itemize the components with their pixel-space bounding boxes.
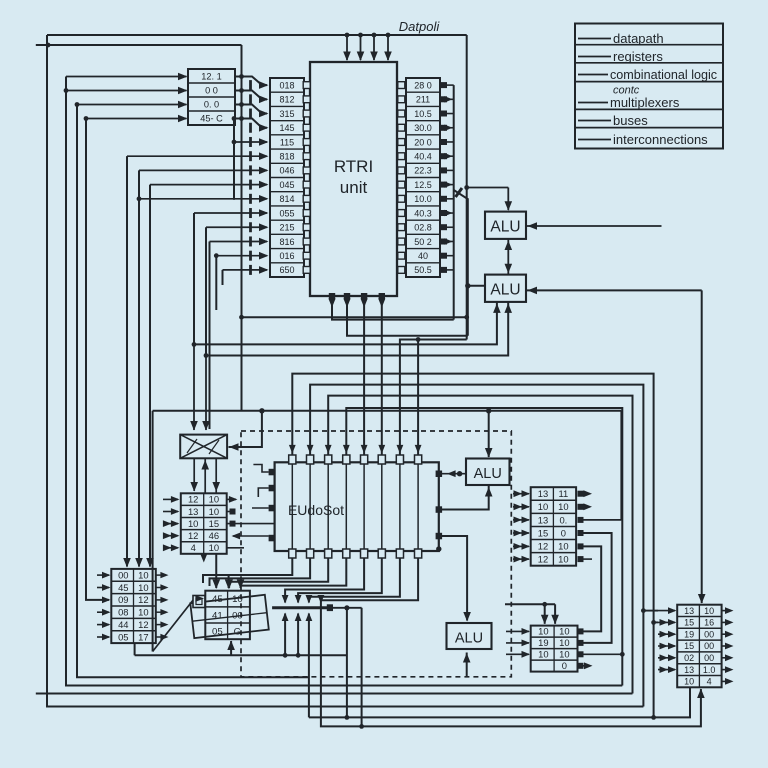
- right frame wire x701.7 down to far right table: [701, 290, 703, 603]
- svg-text:interconnections: interconnections: [613, 132, 708, 147]
- diagonal wire to table E: [153, 597, 196, 651]
- svg-text:10: 10: [138, 569, 148, 580]
- svg-text:0 0: 0 0: [205, 85, 218, 95]
- svg-text:10: 10: [209, 494, 219, 505]
- dropper x346.9 to bottom bus: [346, 608, 348, 718]
- svg-text:10: 10: [558, 554, 568, 565]
- fan wire pin3 to table E top: [229, 558, 328, 588]
- svg-text:13: 13: [188, 506, 198, 517]
- table G right output arrows: [722, 610, 731, 612]
- table D right pins: [578, 628, 584, 634]
- riser x127 register row6 to table F arrow: [126, 156, 128, 566]
- svg-text:0.: 0.: [559, 514, 567, 525]
- arrowheads into EUdoSot top pins: [289, 445, 296, 454]
- left riser x47 to bottom bus y706.5: [47, 35, 643, 707]
- fan wire pin7 to cluster: [309, 558, 400, 603]
- table D row3 wire to right riser: [584, 653, 623, 655]
- table C row4 wire down to table D row2: [584, 533, 612, 643]
- bottom bus y655.3 from table F: [135, 654, 347, 656]
- RTRI output pins to right register file: [398, 82, 405, 89]
- svg-text:10: 10: [684, 677, 694, 687]
- wire top bus y35: [47, 34, 467, 36]
- svg-text:registers: registers: [613, 49, 663, 64]
- execution unit EUdoSot: [275, 462, 439, 551]
- wire into ALU3 bottom from bus y677.2: [466, 653, 468, 678]
- svg-text:28 0: 28 0: [414, 80, 432, 90]
- wire RTRI port3 down to EUdoSot pin5: [363, 296, 365, 455]
- svg-text:018: 018: [279, 80, 294, 90]
- legend key combinational logic: [578, 74, 608, 76]
- table B bottom stub arrow: [203, 554, 205, 560]
- svg-text:ALU: ALU: [490, 219, 520, 236]
- svg-text:multiplexers: multiplexers: [610, 95, 680, 110]
- svg-text:650: 650: [279, 265, 294, 275]
- wire EUdoSot right pin2 to ALU4 bottom: [442, 486, 489, 510]
- bus jog branch to x467.8: [454, 190, 468, 336]
- register table E skewed shadow: [190, 595, 268, 638]
- ALU U3: [485, 275, 526, 302]
- svg-text:datapath: datapath: [613, 31, 664, 46]
- wire into multiplexer right: [229, 411, 262, 447]
- wire table E bottom arrow: [230, 641, 232, 655]
- table B right connections: [227, 498, 236, 500]
- right register output pins: [441, 82, 447, 88]
- svg-text:10: 10: [704, 606, 714, 616]
- svg-text:4: 4: [707, 677, 712, 687]
- svg-text:50 2: 50 2: [414, 237, 432, 247]
- svg-text:12: 12: [138, 619, 148, 630]
- bus y384.6 EUdoSot pin2 to right riser: [310, 385, 643, 707]
- bus width ticks on left register inputs: [249, 80, 252, 90]
- svg-text:10: 10: [232, 594, 243, 605]
- multiplexer to table B links: [193, 458, 195, 491]
- wire input ALU2 from right frame: [526, 289, 702, 291]
- svg-text:12: 12: [188, 494, 198, 505]
- register table B (5 rows): [181, 493, 227, 554]
- riser x466.7 from Datpoli bus: [466, 35, 468, 340]
- wire into left register row5 from table A riser: [233, 119, 235, 200]
- svg-text:02: 02: [684, 653, 694, 663]
- register table E side fragment: [193, 596, 205, 608]
- cluster rising arrow 3 from y717.4: [308, 614, 310, 718]
- bottom bus y693.5 with overhang: [36, 693, 633, 695]
- svg-text:EUdoSot: EUdoSot: [288, 502, 344, 518]
- table D row4 arrow stub: [584, 665, 591, 667]
- legend box: [575, 24, 723, 149]
- svg-text:ALU: ALU: [455, 631, 483, 647]
- EUdoSot left pin jogs: [253, 465, 268, 473]
- svg-text:211: 211: [416, 95, 430, 105]
- svg-text:19: 19: [684, 629, 694, 639]
- riser table A row3 wire: [77, 104, 187, 106]
- svg-text:12: 12: [538, 540, 548, 551]
- svg-text:10: 10: [559, 649, 569, 660]
- ALU U4 inside dashed region: [466, 459, 510, 486]
- EUdoSot right pins: [436, 471, 443, 478]
- svg-text:combinational logic: combinational logic: [610, 68, 717, 82]
- table B left input arrows: [163, 498, 178, 500]
- svg-text:016: 016: [279, 251, 294, 261]
- left register output pins to RTRI: [303, 82, 310, 89]
- EUdoSot left pins: [269, 469, 276, 476]
- svg-text:40: 40: [418, 251, 428, 261]
- svg-text:10: 10: [538, 501, 548, 512]
- register table D (4 rows): [531, 626, 578, 672]
- table F left stub arrows: [97, 574, 109, 576]
- svg-text:0: 0: [562, 660, 567, 671]
- svg-text:12. 1: 12. 1: [201, 71, 221, 81]
- svg-text:816: 816: [279, 237, 294, 247]
- RTRI unit box U1: [310, 62, 397, 296]
- riser table A row1 wire: [66, 76, 187, 78]
- legend key registers: [578, 56, 611, 58]
- register table E (3 rows): [205, 591, 250, 640]
- EUdoSot top pins: [289, 455, 296, 464]
- svg-text:10: 10: [138, 607, 148, 618]
- register table C (6 rows): [531, 487, 576, 566]
- fan wire pin8 through cluster to bottom bus: [321, 558, 701, 726]
- legend key buses: [578, 120, 611, 122]
- svg-text:115: 115: [280, 137, 294, 147]
- svg-text:15: 15: [209, 518, 219, 529]
- wire drop into dashed ALU top: [488, 411, 490, 457]
- left riser x66 to bottom bus y685.5: [66, 77, 622, 686]
- svg-text:50.5: 50.5: [414, 265, 432, 275]
- control bus y410.8 to dashed ALU and table C: [153, 410, 622, 412]
- fan wire pin4 to table E top: [241, 558, 347, 588]
- wire RTRI port1 to right bus: [332, 296, 454, 320]
- wire EUdoSot left pin4 to table B row4: [233, 535, 269, 537]
- svg-text:00: 00: [704, 641, 714, 651]
- svg-text:10: 10: [558, 540, 568, 551]
- bus y395.6 EUdoSot pin3 to right riser: [328, 396, 632, 694]
- legend key interconnections: [578, 139, 611, 141]
- wire table B bottom to table E top: [215, 554, 217, 588]
- svg-text:812: 812: [279, 95, 294, 105]
- svg-text:unit: unit: [340, 178, 368, 197]
- wire to table D top arrows: [505, 603, 555, 605]
- svg-text:45- C: 45- C: [200, 113, 223, 123]
- left register file (14 rows): [270, 78, 304, 277]
- svg-text:10.5: 10.5: [414, 109, 432, 119]
- svg-text:15: 15: [538, 527, 548, 538]
- cluster bus end pin: [327, 604, 333, 611]
- ALU2 bottom port wire to multiplexer left: [194, 302, 497, 345]
- cross link y317.2: [242, 316, 467, 318]
- cluster bus extension to droppers: [332, 607, 361, 609]
- fan wire pin2 hook: [210, 558, 311, 586]
- svg-text:Datpoli: Datpoli: [399, 19, 441, 34]
- svg-text:145: 145: [279, 123, 294, 133]
- svg-text:12: 12: [538, 554, 548, 565]
- svg-text:45: 45: [118, 582, 128, 593]
- table G bottom wire to bus y717.4: [309, 687, 690, 717]
- RTRI top input arrows: [346, 35, 348, 60]
- svg-text:10: 10: [559, 637, 569, 648]
- svg-text:13: 13: [538, 488, 548, 499]
- svg-text:05: 05: [212, 627, 223, 638]
- wire to EUdoSot pin8: [417, 340, 419, 456]
- svg-text:10: 10: [138, 582, 148, 593]
- table F right output arrows: [156, 574, 166, 576]
- svg-text:G: G: [234, 627, 241, 638]
- svg-text:10: 10: [188, 518, 198, 529]
- svg-text:20 0: 20 0: [414, 137, 432, 147]
- wire RTRI port4 down to EUdoSot pin6: [381, 296, 383, 455]
- svg-text:46: 46: [209, 530, 219, 541]
- table C row6 stub: [584, 558, 593, 560]
- svg-text:814: 814: [279, 194, 294, 204]
- svg-text:315: 315: [279, 109, 294, 119]
- dropper x361.6 to bottom bus: [361, 608, 363, 727]
- svg-text:44: 44: [118, 619, 128, 630]
- svg-text:13: 13: [684, 606, 694, 616]
- svg-text:15: 15: [684, 641, 694, 651]
- svg-text:13: 13: [684, 665, 694, 675]
- bus y408 EUdoSot pin4 to right riser: [346, 408, 622, 686]
- svg-text:12: 12: [188, 530, 198, 541]
- wire table F bottom to bottom bus: [134, 643, 136, 655]
- svg-text:40.3: 40.3: [414, 208, 432, 218]
- svg-text:16: 16: [704, 618, 714, 628]
- riser x216.3 register row13: [215, 256, 217, 310]
- node top bus junction: [46, 43, 51, 48]
- bus y373.6 EUdoSot pin1 to right riser: [292, 374, 653, 718]
- svg-text:045: 045: [279, 180, 294, 190]
- table C row5 wire down to table D row1: [584, 546, 602, 631]
- multiplexer M1 crossed box: [180, 435, 227, 459]
- svg-text:05: 05: [118, 631, 128, 642]
- fan wire pin1 hook: [203, 558, 292, 583]
- cluster bus segment: [272, 606, 332, 609]
- svg-text:02.8: 02.8: [414, 223, 432, 233]
- svg-text:45: 45: [212, 594, 223, 605]
- ALU U5 bottom: [447, 623, 492, 649]
- svg-text:00: 00: [118, 569, 128, 580]
- wire register row10 from riser x194: [194, 212, 267, 214]
- fan wire pin6 to cluster: [298, 558, 382, 603]
- riser table A row2 wire: [66, 90, 187, 92]
- EUdoSot bottom pins: [289, 549, 296, 558]
- riser table A row4 wire: [86, 118, 187, 120]
- EUdoSot internal pin columns: [291, 462, 293, 551]
- wire EUdoSot right pin3 to ALU3 top: [442, 536, 467, 621]
- register table G (7 rows): [677, 605, 721, 688]
- svg-text:818: 818: [279, 151, 294, 161]
- svg-text:10: 10: [209, 542, 219, 553]
- left riser x77 to bottom bus y677.2: [77, 105, 309, 678]
- svg-text:15: 15: [684, 618, 694, 628]
- table C rows 1-2 output arrows: [584, 490, 593, 497]
- wire top bus y45 with left overhang: [36, 44, 242, 46]
- svg-text:40.4: 40.4: [414, 151, 432, 161]
- svg-text:046: 046: [279, 166, 294, 176]
- svg-text:11: 11: [559, 488, 569, 499]
- svg-text:215: 215: [279, 223, 294, 233]
- legend key datapath: [578, 38, 611, 40]
- wire to EUdoSot pin7: [400, 340, 467, 456]
- register table F (6 rows): [111, 569, 156, 643]
- svg-text:19: 19: [538, 637, 548, 648]
- right register file (14 rows): [406, 78, 440, 277]
- wire input ALU1 from right: [526, 225, 662, 227]
- riser x150 register row8 to table F arrow: [149, 185, 151, 567]
- riser x206 register row11 to multiplexer: [205, 227, 207, 355]
- svg-text:22.3: 22.3: [414, 166, 432, 176]
- svg-text:10: 10: [558, 501, 568, 512]
- table B row5 stub: [227, 547, 244, 549]
- svg-text:00: 00: [704, 629, 714, 639]
- svg-text:0. 0: 0. 0: [204, 99, 219, 109]
- svg-text:RTRI: RTRI: [334, 157, 373, 176]
- wire table A row4 riser to table F row3: [86, 119, 109, 600]
- ALU2 bottom port wire to multiplexer right: [206, 302, 508, 356]
- riser x241.5 from top bus into dashed region: [241, 45, 243, 411]
- table C left input arrows: [513, 493, 529, 495]
- ALU U2: [485, 212, 526, 239]
- register table A (4 rows): [188, 69, 235, 125]
- svg-text:10: 10: [209, 506, 219, 517]
- fan wire pin5 to cluster: [285, 558, 364, 603]
- riser x139 register row7 to table F arrow: [138, 170, 140, 566]
- riser x209.5 register row12: [209, 241, 211, 429]
- wire EUdoSot right pin1 to ALU4 left: [442, 473, 466, 475]
- bidirectional link ALU1-ALU2: [507, 239, 509, 275]
- svg-text:10: 10: [559, 626, 569, 637]
- svg-text:buses: buses: [613, 113, 648, 128]
- svg-text:055: 055: [279, 208, 294, 218]
- riser x621.4 down to table C row3: [620, 411, 622, 520]
- table E top arrow 2: [228, 575, 230, 588]
- svg-text:10: 10: [538, 626, 548, 637]
- table E left arrow: [195, 595, 204, 602]
- cluster rising arrow 1 from y655.3: [284, 614, 286, 656]
- svg-text:13: 13: [538, 514, 548, 525]
- table G left input arrows: [658, 610, 675, 612]
- svg-text:12.5: 12.5: [414, 180, 432, 190]
- svg-text:12: 12: [138, 594, 148, 605]
- svg-text:10.0: 10.0: [414, 194, 432, 204]
- bus width tick on jog: [456, 188, 463, 197]
- svg-text:1.0: 1.0: [703, 665, 716, 675]
- table C row3 wire to riser x621.4: [584, 519, 622, 521]
- svg-text:30.0: 30.0: [414, 123, 432, 133]
- svg-text:00: 00: [704, 653, 714, 663]
- control bus riser x152.6 down to diagonal: [152, 411, 154, 652]
- wire table B row3 to EUdoSot: [227, 523, 275, 525]
- branch wire into table G row2: [654, 621, 658, 623]
- multiplexer top arrows from ALU2: [193, 344, 195, 430]
- table C right pins: [578, 491, 584, 497]
- svg-text:4: 4: [191, 542, 196, 553]
- wires table A rows to left register rows: [235, 77, 267, 86]
- wire into ALU2 left: [468, 285, 485, 287]
- branch wire into table G row1: [643, 610, 658, 612]
- bus right of right register file x453.7: [453, 85, 455, 319]
- dashed region boundary: [241, 431, 511, 677]
- table D left arrows: [506, 630, 529, 632]
- wire RTRI port2 to x467.8 bus: [347, 296, 468, 336]
- svg-text:0: 0: [561, 527, 566, 538]
- wire register row9 from riser x139: [139, 198, 267, 200]
- svg-text:17: 17: [138, 631, 148, 642]
- svg-text:ALU: ALU: [490, 282, 520, 299]
- riser x194 register row10 to multiplexer: [193, 213, 195, 344]
- svg-text:41: 41: [212, 610, 223, 621]
- cluster rising arrow 2 from y655.3: [297, 614, 299, 656]
- svg-text:09: 09: [118, 594, 128, 605]
- riser x222.5 register row14: [222, 270, 224, 285]
- svg-text:10: 10: [538, 649, 548, 660]
- svg-text:08: 08: [118, 607, 128, 618]
- RTRI bottom ports: [329, 293, 335, 299]
- svg-text:ALU: ALU: [474, 466, 502, 482]
- svg-text:00: 00: [232, 610, 243, 621]
- wire input ALU1 from top: [507, 188, 509, 211]
